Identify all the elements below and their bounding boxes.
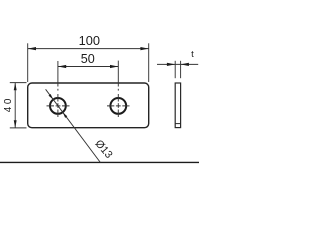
svg-text:40: 40 [3, 96, 14, 112]
svg-text:t: t [191, 49, 194, 60]
svg-text:100: 100 [79, 33, 100, 48]
svg-text:50: 50 [81, 52, 95, 66]
